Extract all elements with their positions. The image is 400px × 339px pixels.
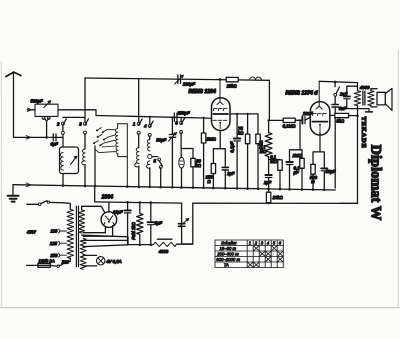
svg-text:110: 110	[50, 229, 57, 234]
node grid cap junction tube1	[219, 78, 222, 81]
switch S4 branch	[150, 117, 153, 140]
resistor 1MOhm grid leak	[300, 158, 304, 168]
svg-text:5: 5	[273, 241, 276, 246]
switch mains	[27, 201, 71, 210]
wire rectifier filament loop	[83, 226, 112, 237]
lamp 4V 0,3A	[97, 257, 105, 265]
svg-text:8 kΩ: 8 kΩ	[258, 140, 263, 150]
connector arrow on antenna lead	[26, 136, 30, 140]
wire grid leak down	[290, 120, 303, 161]
wire frame right vertical	[340, 105, 358, 203]
svg-text:MΩ: MΩ	[270, 159, 278, 164]
switch S3 branch	[139, 79, 142, 148]
coil L5a	[147, 140, 150, 151]
capacitor 6pF	[53, 134, 56, 141]
resistor 8kOhm screen dropper	[265, 120, 272, 159]
rotary switch wafer contacts	[93, 128, 108, 147]
paper bottom edge	[0, 307, 400, 309]
capacitor 5nF tone	[334, 96, 336, 104]
resistor 4000 hum	[153, 242, 176, 246]
wire heater lines	[83, 240, 128, 246]
chassis bar	[366, 111, 373, 113]
tuned circuit L1 with trimmer	[60, 147, 79, 174]
svg-text:μF: μF	[293, 170, 299, 175]
svg-text:TA: TA	[224, 263, 229, 268]
capacitor 0,1uF grid	[286, 161, 292, 163]
svg-text:1μF: 1μF	[227, 171, 235, 176]
svg-text:Diplomat W: Diplomat W	[368, 145, 384, 221]
wire tube1 cathode	[213, 131, 225, 167]
svg-text:1: 1	[249, 241, 252, 246]
svg-text:15kΩ: 15kΩ	[227, 84, 238, 89]
bus ground rail	[13, 185, 335, 190]
svg-text:1: 1	[133, 122, 136, 127]
svg-text:600–2000 m: 600–2000 m	[216, 257, 240, 262]
svg-text:Schalter: Schalter	[221, 241, 237, 246]
resistor 75kOhm	[247, 114, 249, 134]
wire L2 to bus	[84, 165, 86, 186]
capacitor 1uF screen	[268, 160, 270, 175]
switch S2 on coil branch	[85, 78, 88, 149]
svg-text:6pF: 6pF	[51, 141, 59, 146]
svg-text:TEKADE: TEKADE	[360, 117, 367, 149]
RF choke	[250, 77, 262, 80]
wire 500pF bottom to antenna lead	[44, 118, 49, 137]
resistor 0,1MOhm screen bleeder	[269, 159, 280, 161]
svg-text:1064: 1064	[102, 195, 114, 201]
wire coil bracket to bus	[118, 124, 128, 186]
node bus junctions	[62, 184, 326, 191]
svg-text:4000: 4000	[159, 249, 169, 254]
svg-text:250pF: 250pF	[177, 111, 191, 116]
svg-text:6: 6	[279, 241, 282, 246]
ground	[12, 185, 14, 195]
svg-text:1MΩ: 1MΩ	[292, 153, 302, 158]
paper left edge	[0, 62, 2, 307]
rectifier tube 1064	[108, 202, 110, 212]
resistor 150 Ohm cathode	[211, 164, 215, 174]
svg-text:18–50 m: 18–50 m	[219, 246, 236, 251]
jack contact circle	[148, 155, 152, 159]
capacitor 4nF boost	[347, 86, 358, 95]
svg-text:43W: 43W	[27, 229, 37, 234]
trimmer capacitor 500pF	[35, 104, 58, 116]
paper right edge	[397, 50, 399, 307]
switch S5	[152, 157, 162, 186]
coil L4	[135, 148, 139, 167]
svg-text:5nF: 5nF	[339, 106, 347, 111]
capacitor 0,1uF anode	[236, 114, 238, 138]
svg-text:RENS 1284: RENS 1284	[189, 89, 217, 95]
svg-text:5: 5	[154, 159, 157, 164]
svg-text:RENS 1374 d: RENS 1374 d	[286, 91, 319, 97]
svg-text:0,1μF: 0,1μF	[229, 141, 234, 152]
svg-text:kΩ: kΩ	[196, 163, 202, 168]
switch S6 on pickup branch	[181, 118, 184, 149]
svg-text:Feld 1kΩ: Feld 1kΩ	[131, 222, 136, 240]
wire L5 to bus	[149, 168, 151, 186]
switch S1	[63, 117, 85, 137]
svg-text:500pF: 500pF	[31, 99, 44, 104]
resistor 2MOhm	[203, 118, 205, 133]
svg-text:1μF: 1μF	[264, 180, 272, 185]
node rail junction	[334, 81, 337, 84]
wire screen feed	[269, 119, 284, 121]
wire coil taps to wafer	[95, 130, 115, 153]
wire tube1 anode line	[230, 114, 258, 134]
svg-text:20kΩ: 20kΩ	[272, 195, 284, 200]
svg-text:2: 2	[254, 241, 258, 246]
node junctions on grid line	[149, 116, 151, 118]
svg-text:0,1MΩ: 0,1MΩ	[283, 123, 297, 128]
variable capacitor 50pF	[171, 117, 173, 133]
top rail	[85, 78, 269, 120]
svg-text:DB/6 2A: DB/6 2A	[39, 259, 55, 264]
svg-text:2: 2	[56, 122, 60, 127]
resistor 500 Ohm cathode	[311, 164, 315, 174]
winding 4V lamp	[80, 254, 86, 269]
svg-text:3: 3	[261, 241, 264, 246]
wire return line	[128, 243, 193, 245]
transformer T1 power	[67, 209, 73, 258]
switch tone	[335, 82, 339, 94]
wire TA to bus	[181, 168, 183, 186]
wire TA branch to resistor	[181, 149, 193, 159]
wire rail to tube2 grid and output	[319, 81, 357, 90]
wire lamp loop	[83, 255, 97, 266]
svg-text:50μF: 50μF	[326, 169, 336, 174]
svg-text:50pF: 50pF	[156, 137, 166, 142]
capacitor 50uF cathode	[321, 167, 327, 169]
svg-text:120pF: 120pF	[183, 82, 196, 87]
wire wafer common to bus	[94, 146, 96, 186]
svg-text:5kΩ: 5kΩ	[336, 118, 345, 123]
connector arrow on bus	[26, 183, 30, 187]
svg-text:150: 150	[50, 253, 58, 258]
resistor 5kOhm anode stopper	[330, 114, 335, 116]
inductor field coil	[137, 203, 143, 246]
variable capacitor tone	[178, 224, 184, 227]
svg-text:10nF: 10nF	[303, 111, 313, 116]
speaker	[377, 92, 385, 105]
node return junctions	[139, 244, 153, 247]
winding HV	[79, 210, 85, 233]
resistor 0,1MOhm grid stopper	[283, 118, 295, 122]
svg-text:kΩ: kΩ	[238, 131, 244, 136]
wire 500pF output to grid line	[58, 110, 96, 116]
svg-text:125: 125	[50, 241, 58, 246]
wire HV bottom to return	[82, 235, 128, 244]
node B+ junctions	[126, 201, 270, 204]
svg-text:3: 3	[79, 122, 82, 127]
wire antenna mast down and lead-in	[14, 73, 64, 137]
svg-text:4: 4	[267, 241, 270, 246]
wire HV winding to rectifier	[82, 206, 105, 212]
resistor 0,1MOhm anode load	[256, 134, 260, 144]
antenna	[6, 72, 21, 77]
svg-text:4: 4	[144, 124, 147, 129]
svg-text:200–600 m: 200–600 m	[216, 252, 239, 257]
coil L2	[82, 149, 86, 165]
wire 30kOhm to bus	[192, 167, 194, 187]
wire 5nF to bus end	[334, 108, 336, 189]
coil L5b	[146, 161, 150, 168]
wire L4 to bus	[138, 166, 140, 186]
wire B+ line	[95, 202, 358, 204]
wire bus to B+	[94, 186, 96, 202]
switch table	[215, 240, 283, 268]
wire L1 to bus	[62, 174, 64, 186]
svg-text:4V 0,3A: 4V 0,3A	[106, 259, 121, 264]
capacitor 250pF	[174, 113, 177, 121]
svg-text:Ω: Ω	[207, 179, 211, 184]
wire 50pF to bus	[171, 138, 173, 186]
wire grid line (250pF line)	[96, 116, 212, 119]
variable capacitor 120pF	[178, 75, 181, 83]
pickup jack TA	[180, 149, 182, 158]
resistor 15kOhm	[226, 77, 238, 81]
resistor 20kOhm bleeder	[268, 189, 270, 192]
capacitor 16uF filter	[127, 202, 129, 209]
wire tone loop	[182, 203, 193, 244]
capacitor 1uF cathode	[222, 167, 228, 170]
capacitor 10nF coupling	[295, 119, 301, 121]
wire 500pF left lead	[28, 109, 36, 111]
wire secondary to speaker	[371, 89, 377, 107]
winding 4V rectifier filament	[80, 238, 86, 253]
node antenna junction	[45, 136, 48, 139]
capacitor 8uF filter	[150, 203, 152, 222]
svg-text:2MΩ: 2MΩ	[206, 137, 217, 142]
resistor 30kOhm	[191, 158, 195, 166]
svg-text:8μF: 8μF	[155, 220, 163, 225]
coil L3 tapped	[115, 129, 118, 154]
node grid leak junction	[299, 119, 301, 121]
wire tube2 cathode	[313, 132, 324, 167]
svg-text:4000: 4000	[360, 85, 370, 90]
svg-text:6: 6	[175, 121, 178, 126]
wire L1 to antenna line	[62, 137, 64, 147]
